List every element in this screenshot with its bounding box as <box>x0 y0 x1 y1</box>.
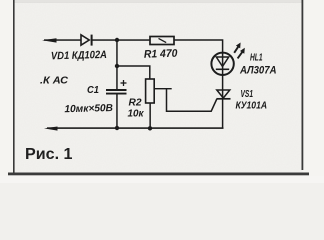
svg-text:10к: 10к <box>128 109 145 120</box>
LED emission arrow 2 <box>238 48 245 59</box>
junction dot R2/bottom bus <box>148 126 152 130</box>
node A junction dot (117,40) <box>115 38 119 42</box>
diode VD1 <box>81 35 92 46</box>
svg-text:VD1 КД102А: VD1 КД102А <box>51 49 107 62</box>
node B junction dot (117,66) <box>115 64 119 68</box>
wire: R1 to top-right corner and down to LED anode <box>174 40 223 128</box>
svg-text:HL1: HL1 <box>250 53 263 64</box>
LED HL1 <box>211 53 233 75</box>
svg-text:КУ101А: КУ101А <box>236 101 268 112</box>
thyristor VS1 <box>217 90 231 99</box>
svg-text:АЛ307А: АЛ307А <box>239 64 276 76</box>
svg-text:.К АС: .К АС <box>40 75 68 87</box>
resistor R1 <box>150 37 174 45</box>
junction dot C1/bottom bus <box>115 126 119 130</box>
frame bottom rule <box>8 173 309 176</box>
svg-text:R2: R2 <box>129 98 142 109</box>
wire: bottom bus <box>47 127 224 129</box>
frame right border <box>302 0 304 170</box>
wire: node A down to capacitor C1 top plate <box>116 40 118 90</box>
R2 tap wiper line <box>154 88 172 89</box>
C1 polarity plus sign <box>121 80 127 86</box>
paper background <box>0 0 324 183</box>
svg-text:VS1: VS1 <box>241 89 254 100</box>
AC return arrow (left, bottom wire) <box>44 127 58 131</box>
resistor R2 (with tap) <box>146 79 155 103</box>
wire: C1 bottom plate to bottom bus <box>116 94 118 129</box>
wire: R2 bottom to bottom bus <box>149 103 151 129</box>
wire: diode cathode to node A <box>92 39 118 41</box>
capacitor C1 <box>106 90 127 94</box>
wire: node B branch to R2 top <box>117 66 150 79</box>
svg-text:10мк×50В: 10мк×50В <box>64 103 113 115</box>
AC input arrow (left, top wire) <box>42 38 57 42</box>
svg-text:R1 470: R1 470 <box>144 48 179 61</box>
wire: VS1 gate (diagonal + horizontal to R2 tap drop) <box>167 89 217 111</box>
svg-text:Рис. 1: Рис. 1 <box>25 146 73 163</box>
wire: node A to resistor R1 <box>117 39 150 41</box>
LED emission arrow 1 <box>234 43 240 53</box>
frame left border <box>13 0 15 173</box>
wire: top bus left segment (AC arrow to diode VD1) <box>44 39 82 41</box>
svg-text:С1: С1 <box>87 85 99 96</box>
